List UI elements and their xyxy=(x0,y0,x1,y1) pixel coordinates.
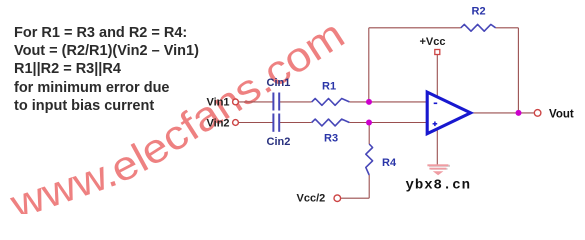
equation text block xyxy=(14,24,199,115)
wire R4 bottom to Vcc/2 corner xyxy=(368,175,370,198)
svg-text:Cin2: Cin2 xyxy=(267,136,291,148)
wire +Vcc supply vertical through op-amp to ground xyxy=(436,55,438,165)
wire Cin1 to R1 xyxy=(280,101,312,103)
svg-text:www.elecfans.com: www.elecfans.com xyxy=(4,11,352,214)
op-amp U1 xyxy=(427,92,470,134)
svg-text:Vcc/2: Vcc/2 xyxy=(297,193,326,205)
svg-text:Cin1: Cin1 xyxy=(267,77,291,89)
svg-text:R1: R1 xyxy=(322,81,336,93)
svg-text:Vin1: Vin1 xyxy=(207,97,230,109)
junction node inverting input xyxy=(366,99,372,105)
svg-text:R2: R2 xyxy=(472,6,486,18)
wire R1 to op-amp inverting input xyxy=(349,101,426,103)
svg-text:ybx8.cn: ybx8.cn xyxy=(406,178,471,194)
wire Vin1 terminal to Cin1 xyxy=(238,101,272,103)
resistor R3 xyxy=(312,119,350,126)
wire Cin2 to R3 xyxy=(280,122,312,124)
wire feedback top left segment xyxy=(369,27,461,29)
wire R3 to op-amp non-inverting input xyxy=(349,122,426,124)
svg-text:R4: R4 xyxy=(382,157,397,169)
svg-text:+Vcc: +Vcc xyxy=(420,36,446,48)
terminal +Vcc square xyxy=(435,50,440,55)
svg-text:R3: R3 xyxy=(324,133,338,145)
resistor R2 xyxy=(461,24,496,31)
svg-text:Vout: Vout xyxy=(549,109,574,121)
wire R4 junction to R4 top xyxy=(368,123,370,145)
wire feedback right vertical xyxy=(517,28,519,113)
junction node non-inverting input xyxy=(366,120,372,126)
resistor R4 xyxy=(366,144,373,175)
wire Vcc/2 terminal to R4 xyxy=(341,197,370,199)
wire feedback top right segment xyxy=(496,27,519,29)
wire Vin2 terminal to Cin2 xyxy=(238,122,272,124)
terminal Vin2 xyxy=(233,120,239,126)
wire feedback left vertical xyxy=(368,28,370,102)
terminal Vout xyxy=(534,110,541,117)
wire op-amp output to Vout terminal xyxy=(472,112,534,114)
terminal Vin1 xyxy=(233,99,239,105)
ground symbol xyxy=(427,164,450,175)
junction node output xyxy=(516,110,522,116)
watermark www.elecfans.com xyxy=(4,11,362,228)
capacitor Cin2 xyxy=(273,114,279,132)
resistor R1 xyxy=(312,99,350,106)
svg-text:Vin2: Vin2 xyxy=(207,118,230,130)
terminal Vcc/2 xyxy=(334,195,341,202)
capacitor Cin1 xyxy=(273,93,279,111)
